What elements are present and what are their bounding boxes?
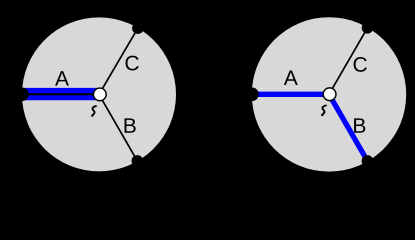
right twist squiggle <box>322 106 326 116</box>
node C-top endpoint dot (right disk) <box>362 22 374 34</box>
label B left <box>125 118 136 132</box>
node B-bottom endpoint dot <box>132 155 144 167</box>
wire: left edge C <box>99 28 138 94</box>
node A-left endpoint dot <box>15 88 29 102</box>
label B right <box>354 118 365 132</box>
label A right <box>284 71 298 85</box>
left disk <box>22 17 176 171</box>
label C left <box>125 56 138 71</box>
label C right <box>354 57 367 72</box>
wire: right edge A blue <box>252 92 329 97</box>
right disk <box>252 17 406 171</box>
wire: left edge A blue highlight <box>22 88 99 100</box>
left twist squiggle <box>92 106 96 116</box>
node C-top endpoint dot <box>132 22 144 34</box>
label A left <box>55 71 69 85</box>
node A-left endpoint dot (right disk) <box>245 88 259 102</box>
node left center vertex <box>93 88 106 101</box>
wire: left edge A black core <box>22 93 99 95</box>
wire: right edge B blue <box>329 94 367 161</box>
wire: left edge B <box>99 94 137 160</box>
wire: right edge C <box>329 28 368 95</box>
node right center vertex <box>323 88 336 101</box>
node B-bottom endpoint dot (right disk) <box>362 155 374 167</box>
